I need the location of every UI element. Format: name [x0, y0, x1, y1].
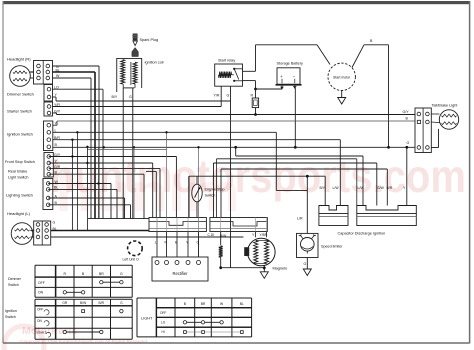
svg-text:OFF: OFF	[38, 281, 45, 285]
svg-text:Headlight (R): Headlight (R)	[7, 57, 31, 62]
svg-text:START: START	[37, 330, 47, 334]
svg-text:Switch: Switch	[205, 194, 216, 198]
svg-text:G: G	[407, 141, 410, 145]
svg-text:Magneto: Magneto	[273, 267, 288, 271]
svg-text:−: −	[293, 74, 296, 79]
svg-text:R: R	[251, 94, 254, 98]
svg-text:Tail/Brake Light: Tail/Brake Light	[432, 104, 459, 108]
svg-text:ON: ON	[38, 291, 44, 295]
svg-text:Capacitor Discharge Ignition: Capacitor Discharge Ignition	[338, 232, 386, 236]
svg-text:B/R: B/R	[99, 301, 105, 305]
svg-text:G: G	[197, 241, 200, 245]
svg-text:G: G	[227, 94, 230, 98]
svg-text:GR: GR	[62, 301, 68, 305]
svg-text:ON: ON	[37, 319, 42, 323]
svg-text:Light Switch: Light Switch	[8, 176, 28, 180]
svg-text:Y/BR: Y/BR	[260, 233, 268, 237]
svg-text:W: W	[56, 74, 60, 78]
svg-text:HI: HI	[162, 330, 165, 334]
svg-text:Speed limiter: Speed limiter	[321, 245, 343, 249]
svg-text:Engine Stop: Engine Stop	[205, 188, 225, 192]
svg-text:Lighting Switch: Lighting Switch	[6, 193, 33, 198]
svg-text:Start relay: Start relay	[218, 59, 235, 63]
svg-text:L/R: L/R	[297, 217, 303, 221]
svg-text:LO: LO	[161, 321, 166, 325]
svg-text:Ignition Switch: Ignition Switch	[7, 132, 33, 137]
svg-text:Ignition: Ignition	[5, 309, 17, 313]
svg-text:B/Y: B/Y	[112, 95, 118, 99]
svg-text:Switch: Switch	[8, 283, 19, 287]
svg-text:BR: BR	[99, 272, 104, 276]
svg-text:BL: BL	[240, 302, 244, 306]
svg-text:OFF: OFF	[160, 311, 166, 315]
svg-text:Y/R: Y/R	[214, 94, 220, 98]
svg-text:B/R: B/R	[387, 186, 393, 190]
svg-text:G: G	[120, 272, 123, 276]
svg-text:Ignition coil: Ignition coil	[145, 61, 164, 65]
svg-text:L: L	[155, 241, 157, 245]
svg-text:G: G	[120, 301, 123, 305]
svg-text:C.DI: C.DI	[208, 233, 215, 237]
svg-text:Storage Battery: Storage Battery	[277, 62, 303, 66]
svg-text:+: +	[280, 74, 283, 79]
svg-text:Rectifier: Rectifier	[172, 271, 188, 276]
svg-text:Front Stop Switch: Front Stop Switch	[5, 160, 35, 164]
svg-text:G: G	[129, 95, 132, 99]
svg-text:L/W: L/W	[358, 186, 365, 190]
svg-text:LIGHT: LIGHT	[141, 316, 153, 320]
svg-text:Headlight (L): Headlight (L)	[7, 211, 31, 216]
svg-text:Spark Plug: Spark Plug	[140, 38, 159, 42]
svg-text:Rear Brake: Rear Brake	[8, 170, 27, 174]
svg-text:Dimmer Switch: Dimmer Switch	[7, 92, 34, 97]
svg-text:G: G	[304, 262, 307, 266]
svg-text:Dimmer: Dimmer	[8, 277, 22, 281]
svg-text:G: G	[53, 221, 56, 225]
svg-text:OFF: OFF	[37, 308, 43, 312]
svg-text:Switch: Switch	[5, 315, 16, 319]
svg-text:L/W: L/W	[333, 186, 340, 190]
svg-text:Starter Switch: Starter Switch	[7, 109, 32, 114]
svg-text:Start motor: Start motor	[333, 75, 351, 79]
svg-text:B/W: B/W	[80, 301, 87, 305]
svg-text:Left Unit O: Left Unit O	[123, 258, 140, 262]
svg-text:B/Y: B/Y	[320, 186, 326, 190]
svg-text:G/W: G/W	[377, 186, 385, 190]
svg-text:BR: BR	[201, 302, 206, 306]
svg-text:G/Y: G/Y	[403, 110, 410, 114]
